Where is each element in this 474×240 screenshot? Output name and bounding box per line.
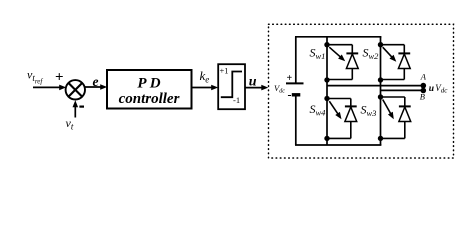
wire vtref to summer	[33, 86, 61, 88]
wire top rail	[295, 36, 381, 38]
svg-text:Vdc: Vdc	[435, 83, 448, 95]
svg-text:+: +	[55, 70, 64, 86]
wire e	[85, 86, 102, 88]
wire left leg	[326, 37, 328, 145]
switch Sw4	[324, 96, 329, 101]
svg-text:A: A	[420, 72, 427, 82]
node right leg upper junction	[378, 77, 383, 82]
svg-text:Sw1: Sw1	[310, 46, 326, 62]
svg-text:ke: ke	[200, 68, 210, 85]
svg-text:vt: vt	[66, 116, 74, 132]
svg-text:+1: +1	[220, 66, 229, 76]
switch Sw2	[378, 42, 383, 47]
wire vt feedback	[74, 105, 76, 118]
wire output A	[327, 85, 423, 87]
switch Sw3	[378, 94, 383, 99]
wire ke	[192, 87, 213, 89]
diode D4	[327, 98, 351, 100]
wire u	[245, 87, 262, 89]
relay block U2	[218, 64, 245, 109]
diode D1	[327, 44, 352, 46]
H-bridge dashed enclosure	[269, 24, 454, 158]
battery Vdc	[295, 37, 297, 84]
wire bottom rail	[295, 144, 381, 146]
node right leg lower junction	[378, 136, 383, 141]
diode D3	[381, 96, 405, 98]
svg-text:u: u	[429, 84, 434, 94]
node B terminal	[421, 88, 427, 94]
svg-text:Sw4: Sw4	[310, 102, 327, 118]
node left leg upper junction	[324, 77, 329, 82]
diode D2	[381, 44, 405, 46]
svg-text:controller: controller	[119, 91, 180, 107]
svg-text:Sw2: Sw2	[363, 46, 380, 62]
node left leg lower junction	[324, 136, 329, 141]
wire output B	[381, 89, 424, 91]
svg-text:+: +	[287, 73, 293, 84]
wire right leg	[380, 37, 382, 145]
svg-text:Sw3: Sw3	[361, 103, 377, 119]
node A terminal	[421, 83, 427, 89]
summing junction	[66, 80, 85, 99]
svg-text:B: B	[420, 92, 425, 102]
svg-text:-1: -1	[233, 95, 240, 105]
svg-text:vtref: vtref	[27, 68, 43, 86]
PD controller block U1	[107, 70, 192, 109]
switch Sw1	[324, 42, 329, 47]
svg-text:Vdc: Vdc	[274, 83, 285, 95]
minus sign at summing junction	[79, 106, 84, 108]
svg-text:-: -	[288, 87, 292, 101]
svg-text:P D: P D	[137, 76, 160, 92]
